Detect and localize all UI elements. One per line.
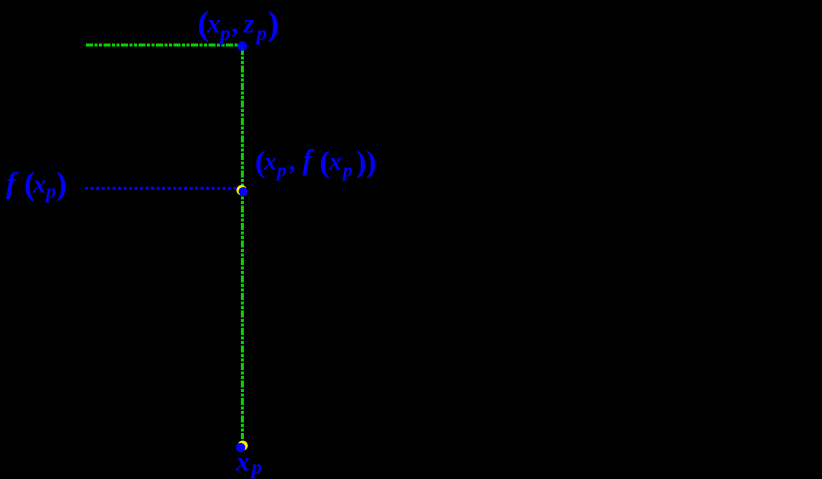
label: xp below axis — [235, 447, 262, 479]
svg-text:): ) — [356, 144, 366, 179]
wire: green dash-dot horizontal line from y-axis to point (xp,zp) — [86, 44, 243, 47]
node: point (xp, f(xp)) yellow halo — [236, 185, 246, 195]
svg-text:x: x — [235, 447, 250, 477]
svg-text:p: p — [275, 161, 287, 182]
svg-text:x: x — [328, 149, 342, 176]
svg-text:x: x — [206, 9, 221, 39]
svg-text:): ) — [56, 167, 67, 203]
svg-text:): ) — [366, 144, 376, 179]
node: point xp on axis, blue dot — [236, 443, 245, 452]
node: point (xp, f(xp)) blue dot — [239, 187, 248, 196]
wire: green dash-dot vertical line from (xp,zp) down to xp — [241, 48, 244, 439]
label: (xp, f(xp)) at middle point — [255, 144, 376, 182]
label: f(xp) at left — [6, 166, 67, 203]
svg-text:p: p — [255, 21, 268, 45]
wire: blue dotted horizontal line from f(xp) to point (xp,f(xp)) — [85, 187, 238, 190]
svg-text:,: , — [289, 149, 296, 176]
svg-text:p: p — [341, 161, 353, 182]
svg-text:p: p — [250, 455, 263, 479]
node: point (xp, zp) blue dot — [237, 41, 247, 51]
node: point xp on axis, yellow halo — [238, 441, 248, 451]
svg-text:x: x — [263, 149, 277, 176]
svg-text:,: , — [232, 9, 240, 39]
svg-text:z: z — [243, 9, 255, 39]
svg-text:x: x — [32, 169, 46, 198]
svg-text:p: p — [218, 21, 231, 45]
label: (xp, zp) at top — [198, 4, 280, 45]
svg-text:): ) — [268, 4, 280, 43]
svg-text:p: p — [44, 181, 56, 203]
